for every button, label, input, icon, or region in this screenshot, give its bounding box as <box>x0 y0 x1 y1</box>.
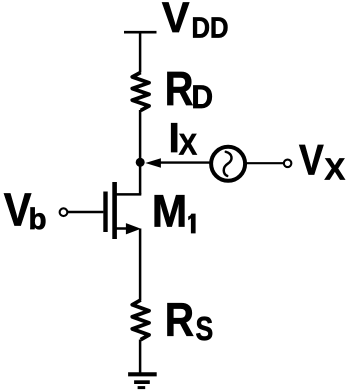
wire source circle to VX terminal <box>247 162 284 164</box>
transistor M1 drain lead <box>115 193 141 196</box>
ground bar 3 <box>138 386 146 389</box>
wire RD to node <box>139 110 142 163</box>
svg-text:V: V <box>299 137 324 184</box>
AC source sine symbol <box>224 152 232 176</box>
resistor RS <box>132 300 149 340</box>
AC source VX circle <box>211 147 245 181</box>
svg-text:R: R <box>165 294 194 347</box>
gate wire <box>68 211 104 213</box>
svg-text:V: V <box>162 0 190 42</box>
ground bar 2 <box>134 380 150 384</box>
transistor M1 channel bar <box>112 182 117 239</box>
svg-text:X: X <box>179 129 198 162</box>
transistor M1 source lead <box>115 227 130 230</box>
transistor M1 gate bar <box>103 192 107 233</box>
label M1 subscript 1 <box>188 214 195 234</box>
svg-text:X: X <box>325 152 346 187</box>
node A (drain node) <box>136 158 145 167</box>
svg-text:D: D <box>191 79 213 115</box>
resistor RD <box>132 72 149 110</box>
terminal VX (open circle) <box>284 160 292 168</box>
terminal Vb (open circle) <box>60 208 68 216</box>
svg-text:S: S <box>196 310 214 347</box>
svg-text:b: b <box>29 203 47 236</box>
current arrow IX head <box>145 158 161 167</box>
svg-text:DD: DD <box>192 13 229 45</box>
transistor M1 source arrow <box>126 223 141 234</box>
wire arrow to source circle <box>159 161 210 163</box>
wire node to drain <box>139 163 142 195</box>
svg-text:M: M <box>152 185 187 236</box>
wire VDD to RD <box>139 32 142 72</box>
svg-text:R: R <box>165 63 194 116</box>
ground bar 1 <box>128 372 157 376</box>
VDD supply bar <box>124 31 157 34</box>
wire RS to ground <box>139 340 142 375</box>
wire source to RS <box>139 229 142 301</box>
